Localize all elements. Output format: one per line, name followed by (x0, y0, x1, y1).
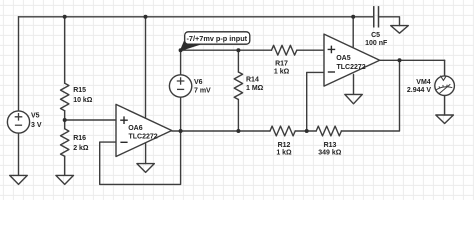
svg-text:C5: C5 (371, 32, 380, 39)
svg-text:OA5: OA5 (336, 55, 351, 62)
svg-text:2 kΩ: 2 kΩ (73, 145, 89, 152)
svg-text:1 kΩ: 1 kΩ (276, 150, 292, 157)
svg-text:OA6: OA6 (128, 125, 143, 132)
svg-text:2.944 V: 2.944 V (407, 87, 431, 94)
svg-text:R16: R16 (73, 135, 86, 142)
svg-text:3 V: 3 V (31, 122, 42, 129)
svg-text:100 nF: 100 nF (365, 40, 388, 47)
svg-text:349 kΩ: 349 kΩ (318, 150, 342, 157)
svg-text:10 kΩ: 10 kΩ (73, 97, 93, 104)
svg-text:1 MΩ: 1 MΩ (246, 85, 264, 92)
svg-text:V5: V5 (31, 113, 40, 120)
svg-text:R15: R15 (73, 87, 86, 94)
svg-text:VM4: VM4 (416, 79, 431, 86)
svg-text:TLC2272: TLC2272 (129, 134, 158, 141)
svg-text:R13: R13 (324, 142, 337, 149)
svg-text:R12: R12 (278, 142, 291, 149)
svg-text:R17: R17 (275, 61, 288, 68)
svg-text:V6: V6 (194, 79, 203, 86)
svg-text:1 kΩ: 1 kΩ (274, 69, 290, 76)
svg-text:-7/+7mv p-p input: -7/+7mv p-p input (187, 34, 248, 43)
svg-text:7 mV: 7 mV (194, 88, 211, 95)
svg-text:R14: R14 (246, 77, 259, 84)
svg-text:TLC2272: TLC2272 (337, 64, 366, 71)
